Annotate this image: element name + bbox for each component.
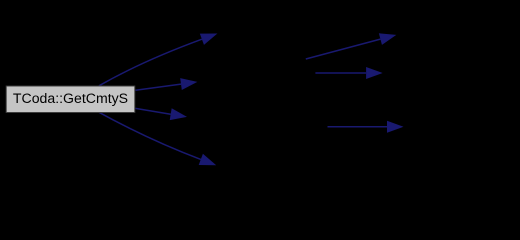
edge arrow 6 (second column, horizontal) <box>315 72 366 74</box>
svg-text:TCoda::GetCmtyS: TCoda::GetCmtyS <box>13 90 128 106</box>
edge arrow 5 (second column, up-right) <box>306 39 381 59</box>
edge arrow 2 (node1 right edge, shallow up) <box>136 84 182 90</box>
node TCoda::GetCmtyS <box>6 86 135 113</box>
edge arrow 7 (second column lower, horizontal) <box>328 126 388 128</box>
edge arrow 4 (node1 bottom edge to lower node) <box>99 112 201 159</box>
edge arrow 3 (node1 right edge, shallow down) <box>136 108 171 114</box>
edge arrow 1 (node1 top edge to upper node) <box>99 39 202 86</box>
